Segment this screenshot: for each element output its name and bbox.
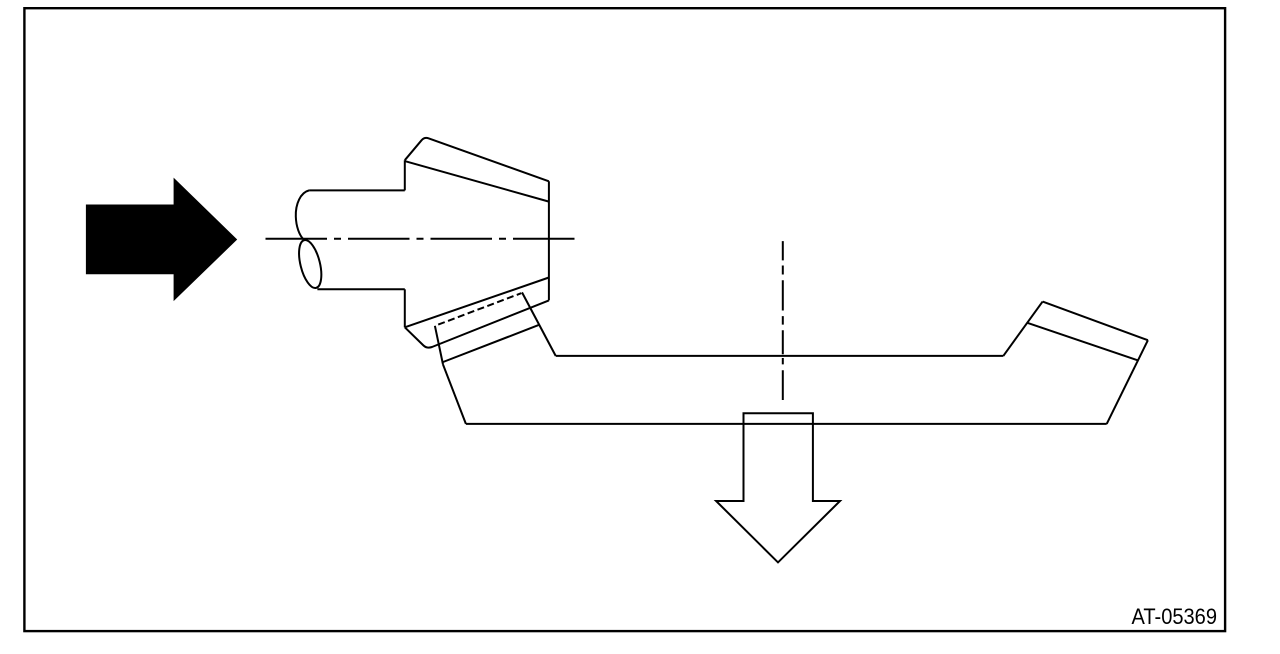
hollow arrow (load direction, downward) (716, 413, 840, 562)
svg-text:AT-05369: AT-05369 (1132, 604, 1218, 629)
pinion shaft bottom line (317, 288, 404, 290)
horizontal centerline (pinion axis) (266, 238, 581, 240)
pinion right edge (548, 181, 550, 300)
ring gear right tooth left edge (1003, 302, 1042, 356)
ring gear right tooth top edge (1043, 302, 1148, 341)
ring gear left body edge (443, 365, 466, 424)
pinion head left edge upper segment (404, 160, 406, 190)
pinion shaft top line (309, 189, 405, 191)
pinion top chamfer and top outer edge (405, 138, 549, 181)
pinion bottom tooth root line (405, 278, 549, 328)
vertical centerline (ring gear axis) (782, 241, 784, 400)
black arrow (drive input direction) (86, 178, 237, 302)
ring gear left tooth left edge (435, 326, 443, 365)
ring gear left tooth right edge (522, 292, 556, 356)
pinion shaft end face ellipse (295, 238, 326, 290)
ring gear left tooth band lower edge (442, 325, 539, 362)
ring gear hidden tooth edge (dashed) (438, 293, 521, 324)
ring gear bottom surface (466, 423, 1107, 425)
pinion shaft end silhouette arc (296, 190, 309, 239)
ring gear right tooth inner line (1027, 323, 1138, 361)
pinion head left edge lower segment (404, 289, 406, 327)
ring gear right outer edge (1107, 340, 1148, 424)
pinion top tooth root line (405, 161, 549, 201)
ring gear top surface (556, 355, 1004, 357)
pinion bottom outer edge and bottom chamfer (405, 300, 549, 347)
